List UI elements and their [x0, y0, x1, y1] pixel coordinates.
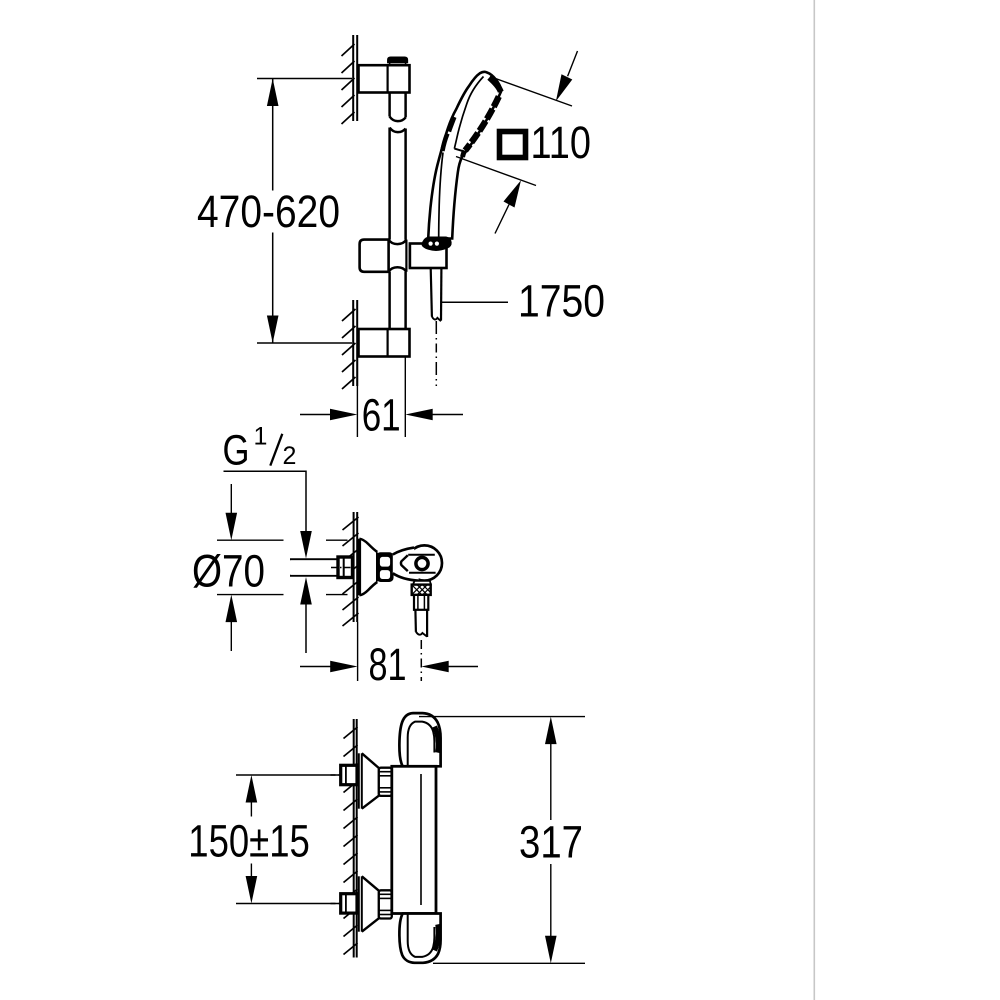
hose centerline (dash-dot)	[435, 321, 437, 386]
svg-text:1750: 1750	[518, 276, 605, 327]
upper wall bracket	[359, 65, 410, 92]
hand shower spray face (dark band)	[489, 78, 501, 92]
valve body (middle elbow, round head)	[407, 545, 442, 580]
svg-text:81: 81	[369, 639, 407, 690]
dimension 81 (wall to hose center)	[357, 622, 359, 681]
stub pipe white fill	[291, 560, 339, 575]
lower inlet hex nut	[341, 894, 357, 913]
wall hatching (bottom of rail)	[342, 309, 356, 389]
dimension 150±15	[236, 775, 340, 904]
bottom handle inner dome	[408, 914, 435, 957]
upper inlet hex nut	[341, 765, 357, 784]
lower inlet union nut (ribbed)	[379, 890, 392, 918]
lower inlet escutcheon	[359, 876, 379, 931]
svg-text:317: 317	[519, 817, 583, 868]
bottom handle grip mark (thick)	[435, 924, 439, 950]
svg-text:G: G	[223, 427, 250, 475]
wall (top, at upper bracket)	[353, 35, 357, 121]
outlet hole	[416, 557, 428, 569]
wall hatching (bottom assembly)	[344, 727, 358, 955]
rail cap (top)	[388, 57, 408, 62]
spout crease	[401, 555, 408, 571]
rail holder / slider knob	[360, 240, 389, 272]
leader line for 1750	[442, 301, 508, 303]
thermostat bottom handle	[399, 914, 440, 963]
escutcheon bell white fill	[359, 539, 377, 596]
wall hatching (middle)	[343, 517, 359, 626]
shower rail (segment between holder and lower bracket)	[390, 272, 406, 331]
square symbol	[500, 132, 526, 158]
G1/2 connection stub through wall	[290, 559, 339, 576]
handle inner line	[439, 153, 443, 239]
dimension 317	[419, 717, 585, 964]
upper inlet escutcheon	[359, 753, 379, 808]
hose collar below body	[413, 581, 431, 585]
svg-text:1: 1	[254, 423, 268, 451]
leader line from G 1/2	[224, 471, 307, 531]
wall (bottom, at lower bracket)	[353, 300, 357, 386]
holder socket (hand shower seat)	[410, 244, 447, 269]
face plate bottom edge	[454, 149, 463, 152]
wall (middle assembly)	[354, 512, 358, 622]
wall hatching (top)	[342, 44, 355, 124]
hose centerline (middle, dash-dot)	[420, 640, 422, 681]
svg-text:110: 110	[531, 117, 592, 168]
dark beads on back edge	[449, 117, 454, 132]
dimension 61 (wall to rail)	[300, 357, 463, 437]
svg-text:470-620: 470-620	[197, 186, 340, 237]
dimension 470-620 (vertical)	[272, 79, 274, 344]
extension line at lower bracket (470-620 bottom)	[257, 342, 352, 344]
hex nut (middle, on wall)	[338, 557, 353, 578]
top handle inner dome	[408, 722, 435, 767]
wall (bottom assembly)	[354, 719, 357, 958]
svg-text:2: 2	[283, 442, 297, 470]
lower wall bracket	[359, 329, 410, 357]
union nut (middle, two rings)	[377, 553, 393, 581]
thermostat top handle	[399, 713, 440, 766]
dimension square-110 (shower face)	[456, 51, 578, 234]
extension line at upper bracket (470-620 top)	[257, 78, 352, 80]
hose hex adapter	[414, 595, 428, 610]
escutcheon bell (middle)	[358, 539, 361, 596]
shower rail (upper segment, with break)	[390, 93, 406, 241]
svg-text:Ø70: Ø70	[192, 546, 265, 597]
upper inlet union nut (ribbed)	[379, 768, 392, 796]
top handle grip mark (thick)	[435, 727, 439, 753]
knurled hose nut	[412, 585, 431, 595]
dimension Ø70 extension lines	[217, 484, 348, 651]
page divider line (faint, right side)	[813, 0, 815, 1000]
svg-text:150±15: 150±15	[188, 816, 309, 867]
G1/2 stub dimension arrows	[300, 531, 312, 559]
hose tube (middle)	[415, 610, 427, 637]
body band lines	[408, 554, 435, 556]
shower hose (upper section from holder)	[431, 268, 442, 321]
hand shower body	[428, 72, 501, 239]
hand shower inner face-plate line	[454, 77, 483, 149]
svg-text:61: 61	[362, 390, 401, 441]
stub centerline (dash-dot)	[331, 567, 353, 569]
holder clamp saddles on rail	[389, 240, 407, 245]
thermostat body	[392, 766, 436, 913]
handle cone at hose connection (dark)	[422, 237, 451, 250]
